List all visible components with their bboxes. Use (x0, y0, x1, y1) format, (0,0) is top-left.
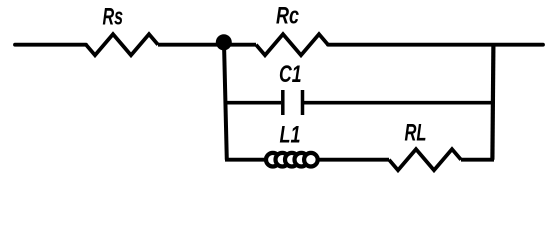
svg-text:C1: C1 (279, 61, 302, 88)
svg-text:RL: RL (405, 120, 427, 147)
resistor Rs (86, 34, 158, 55)
svg-text:Rc: Rc (276, 2, 299, 29)
wire: L1 to RL (318, 158, 390, 162)
resistor RL (389, 149, 461, 170)
wire: RL to bottom-right corner (461, 158, 494, 162)
svg-text:Rs: Rs (103, 3, 124, 30)
inductor L1 (overlapping loops) (266, 153, 318, 167)
wire: bottom branch left lead into L1 (225, 158, 266, 162)
wire: top-left lead into Rs (15, 43, 86, 47)
wire: C1 branch right (304, 101, 493, 105)
wire: Rc to top-right (328, 43, 543, 47)
capacitor C1 (283, 90, 303, 115)
resistor Rc (256, 34, 328, 55)
node A (junction dot) (216, 34, 232, 50)
wire: C1 branch left (226, 101, 282, 105)
wire: right vertical (492, 45, 493, 160)
wire: node A to Rc (224, 43, 256, 47)
svg-text:L1: L1 (280, 121, 301, 148)
wire: left vertical from node A down (224, 43, 227, 160)
wire: Rs to node A (158, 43, 224, 47)
